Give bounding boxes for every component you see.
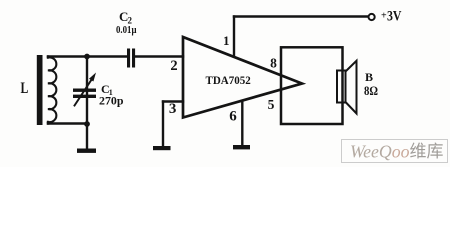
svg-text:3: 3 xyxy=(169,101,177,117)
svg-text:270p: 270p xyxy=(99,95,124,107)
svg-text:5: 5 xyxy=(268,97,275,112)
svg-text:维库: 维库 xyxy=(410,142,444,161)
svg-text:8: 8 xyxy=(270,56,277,71)
svg-text:3V: 3V xyxy=(387,9,402,25)
svg-text:6: 6 xyxy=(229,108,237,124)
svg-text:0.01μ: 0.01μ xyxy=(116,24,137,36)
svg-text:1: 1 xyxy=(223,33,230,48)
svg-text:2: 2 xyxy=(170,58,177,74)
svg-text:TDA7052: TDA7052 xyxy=(206,75,251,87)
svg-text:8Ω: 8Ω xyxy=(364,84,378,98)
svg-text:L: L xyxy=(21,80,29,97)
svg-text:WeeQoo: WeeQoo xyxy=(350,142,410,162)
svg-text:B: B xyxy=(365,70,373,84)
